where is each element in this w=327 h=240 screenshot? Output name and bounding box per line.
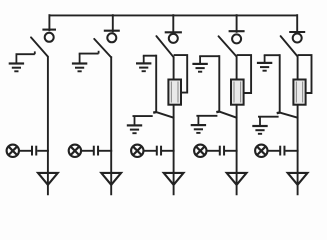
switch S1 blade (31, 37, 48, 56)
wire ground to contact K5 (upper) (264, 54, 280, 56)
wire resistor R3 to output (node 3) (173, 104, 175, 195)
indicator lamp HL4 (194, 145, 206, 157)
indicator lamp HL1 (7, 145, 19, 157)
switch S1 fixed contact (42, 14, 56, 42)
indicator lamp HL3 (131, 145, 143, 157)
switch S4 blade (219, 36, 237, 56)
wire lamp HL4 to capacitor C4 (207, 150, 220, 152)
ground (branch 3 upper) (136, 56, 151, 71)
ground (branch 3 lower) (127, 116, 142, 133)
resistor R5 (293, 80, 305, 105)
wire node 2 (switch S2 to output) (110, 56, 112, 195)
wire capacitor C2 to node 2 (99, 150, 112, 152)
wire ground to contact K3 (lower) (133, 115, 153, 117)
resistor R3 (168, 80, 181, 105)
output arrow (to line) branch 3 (164, 173, 184, 185)
wire switch S2 blade to ground (79, 51, 99, 54)
wire resistor R5 to output (node 5) (297, 104, 299, 195)
wire node 5 to resistor R5 tap (298, 55, 312, 93)
output arrow (to line) branch 5 (288, 173, 308, 185)
wire ground to contact K4 (upper) (199, 55, 219, 57)
output arrow (to line) branch 1 (38, 173, 58, 185)
wire switch S4 to resistor R4 (236, 56, 238, 80)
bus wire (top common rail) (49, 14, 298, 16)
ground (branch 4 upper) (192, 56, 207, 71)
wire lamp HL3 to capacitor C3 (144, 150, 157, 152)
capacitor C4 (220, 146, 224, 156)
wire switch S3 to resistor R3 (173, 56, 175, 80)
contact K3 armature (upper ground to node 3) (153, 55, 173, 118)
switch S3 blade (156, 36, 173, 57)
ground (branch 1) (9, 54, 24, 71)
indicator lamp HL2 (69, 145, 81, 157)
switch S4 fixed contact (229, 14, 245, 43)
wire node 4 to resistor R4 tap (237, 55, 252, 93)
contact K4 armature (upper ground to node 4) (216, 55, 236, 117)
output arrow (to line) branch 2 (101, 173, 121, 185)
wire switch S1 blade to ground (16, 51, 35, 54)
switch S2 blade (94, 39, 111, 58)
wire node 3 to resistor R3 tap (174, 55, 188, 93)
switch S3 fixed contact (165, 14, 182, 43)
wire capacitor C5 to node 5 (285, 150, 298, 152)
wire lamp HL2 to capacitor C2 (81, 150, 94, 152)
output arrow (to line) branch 4 (227, 173, 247, 185)
wire lamp HL1 to capacitor C1 (19, 150, 32, 152)
wire capacitor C3 to node 3 (162, 150, 175, 152)
switch S2 fixed contact (104, 14, 120, 42)
wire resistor R4 to output (node 4) (236, 104, 238, 195)
wire ground to contact K5 (lower) (258, 116, 279, 118)
contact K5 armature (upper ground to node 5) (277, 54, 298, 117)
wire capacitor C1 to node 1 (37, 150, 49, 152)
wire capacitor C4 to node 4 (225, 150, 238, 152)
switch S5 fixed contact (289, 14, 305, 42)
wire ground to contact K4 (lower) (196, 115, 217, 117)
ground (branch 5 lower) (252, 117, 267, 134)
wire node 1 (switch S1 to output) (47, 56, 49, 195)
wire switch S5 to resistor R5 (297, 56, 299, 80)
wire lamp HL5 to capacitor C5 (268, 150, 281, 152)
resistor R4 (231, 80, 244, 105)
capacitor C5 (280, 146, 284, 156)
ground (branch 2) (72, 54, 87, 72)
capacitor C1 (32, 146, 36, 156)
indicator lamp HL5 (255, 145, 267, 157)
switch S5 blade (281, 36, 298, 56)
capacitor C3 (157, 146, 161, 156)
wire ground to contact K3 (upper) (143, 55, 156, 57)
capacitor C2 (94, 146, 98, 156)
ground (branch 4 lower) (191, 116, 206, 133)
ground (branch 5 upper) (257, 55, 272, 70)
